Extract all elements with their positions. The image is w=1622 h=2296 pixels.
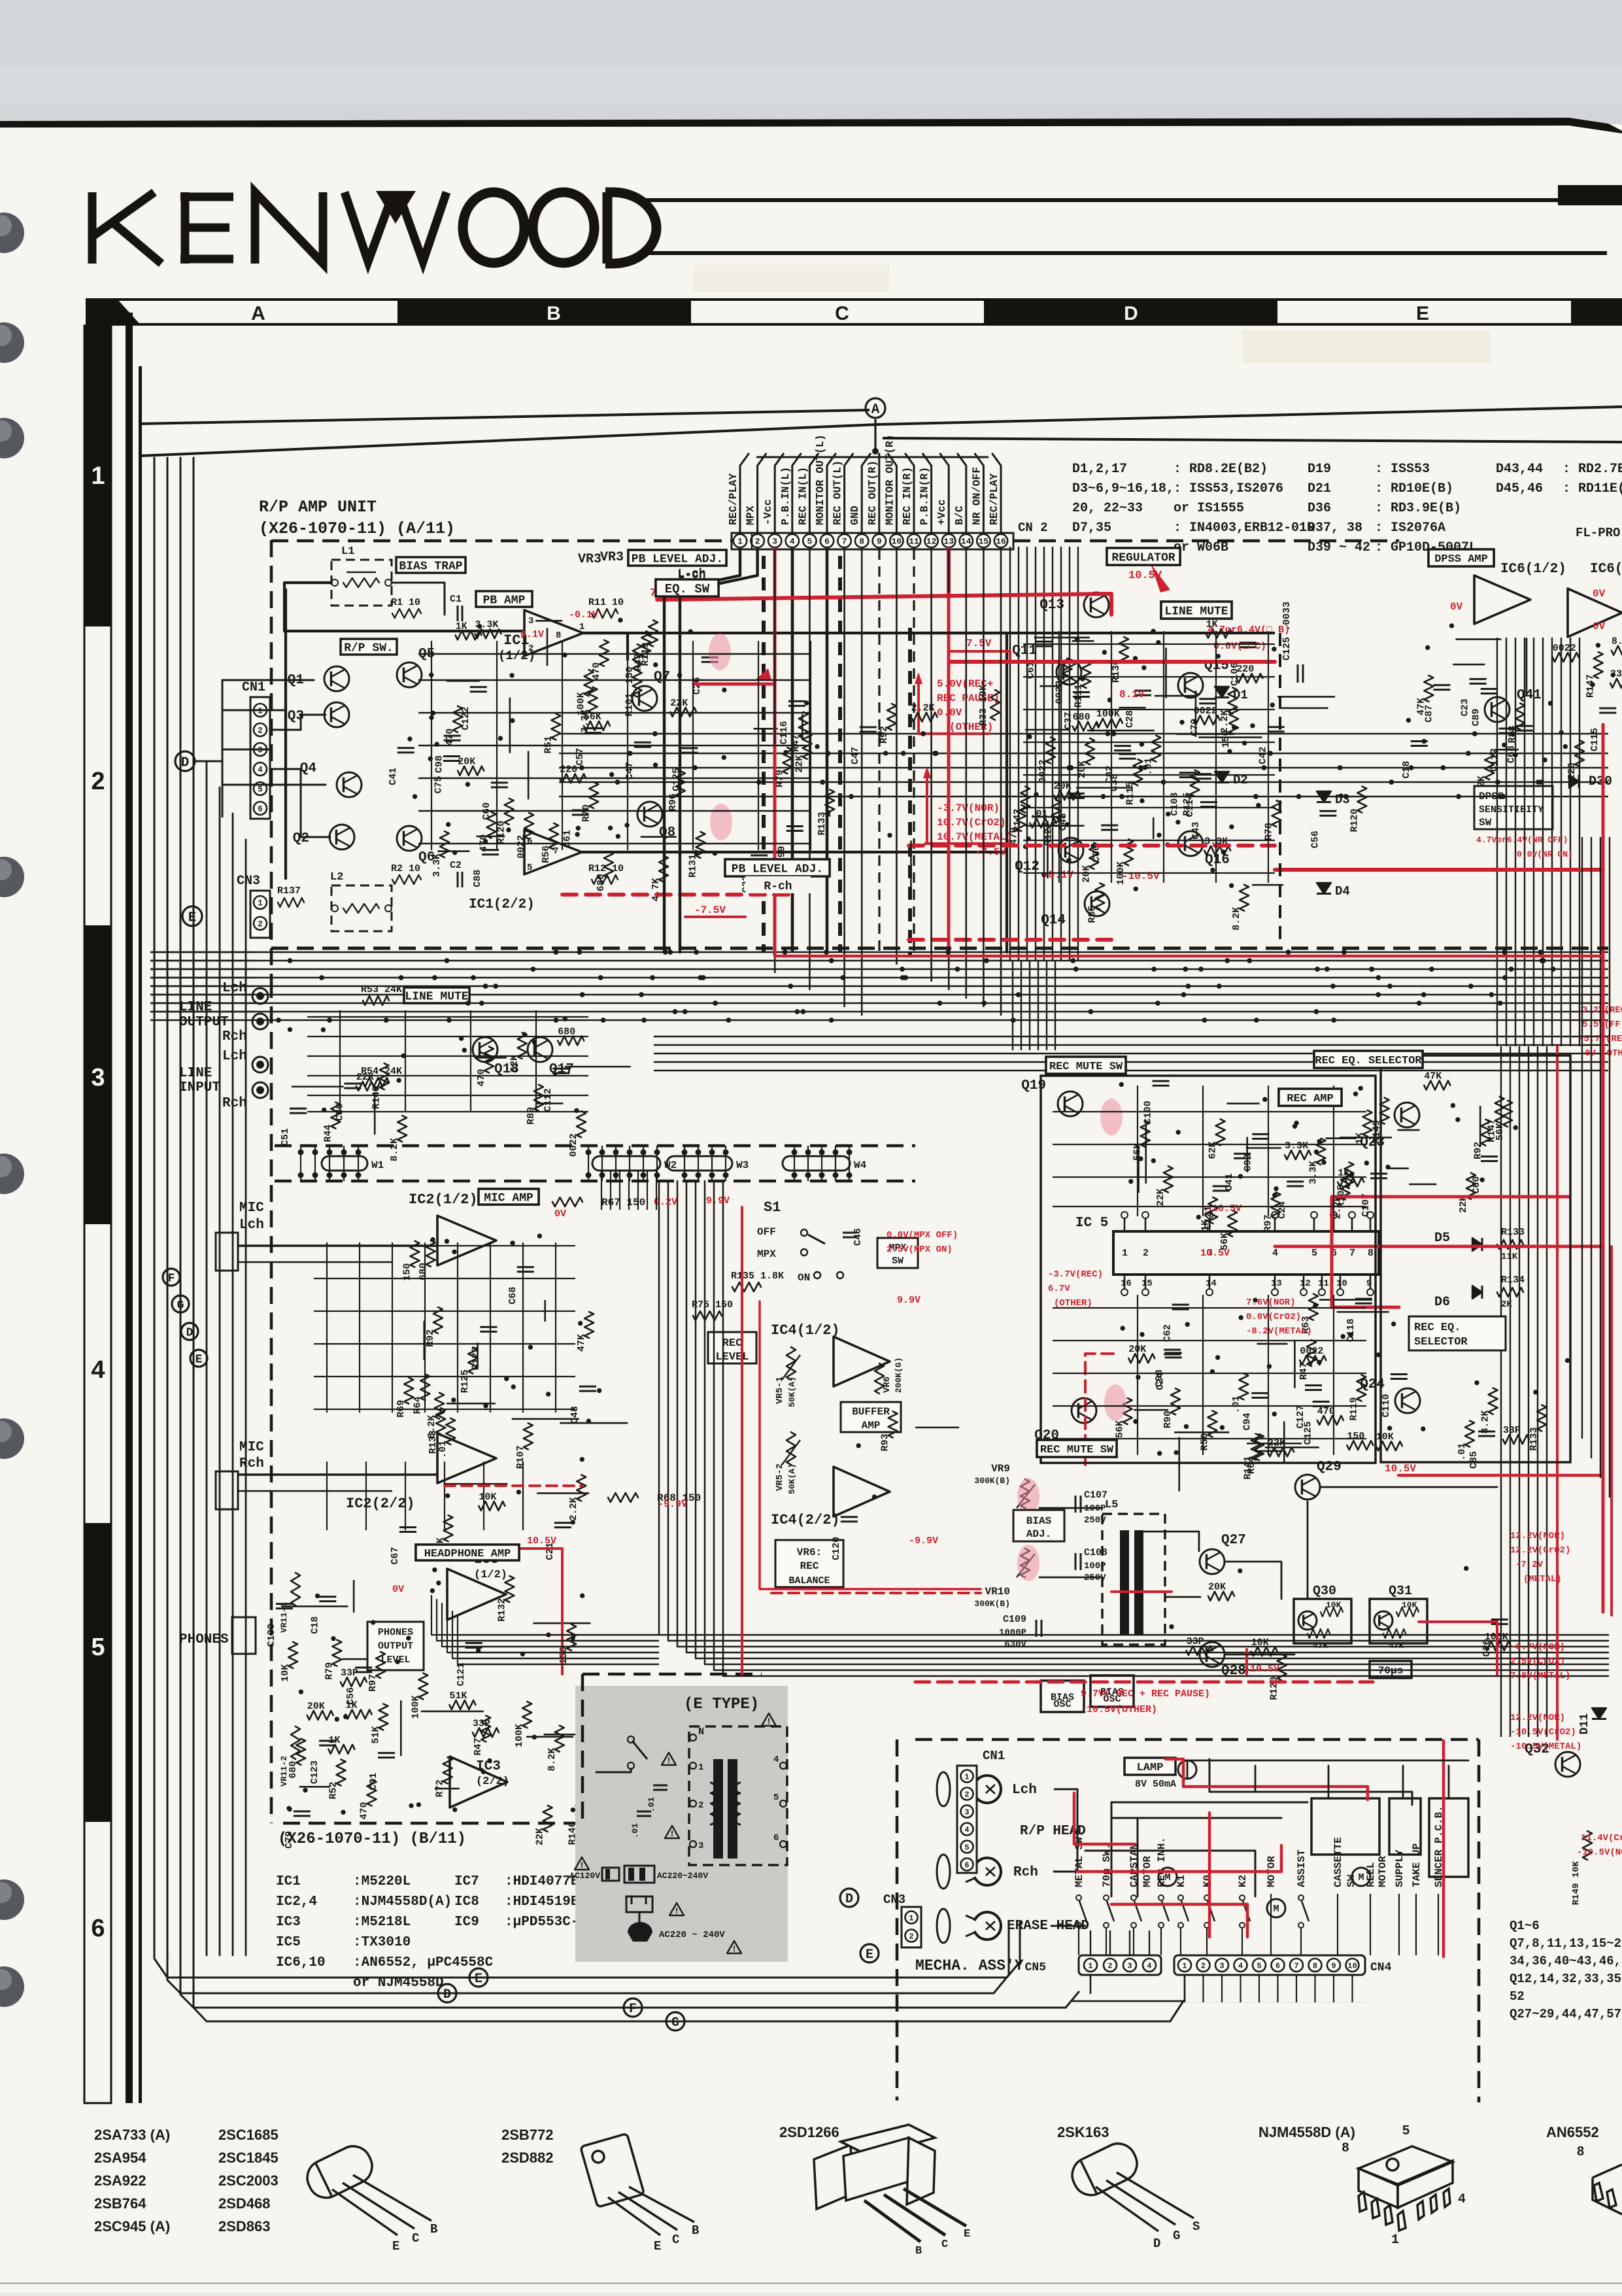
IC5 pin 15	[1145, 1275, 1147, 1290]
svg-text:220: 220	[1236, 664, 1254, 675]
bias cluster	[1251, 1647, 1277, 1656]
diode D4	[1317, 883, 1331, 894]
line jack 1	[252, 988, 268, 1004]
CN1b pin 4	[961, 1823, 973, 1836]
svg-text:R75 150: R75 150	[692, 1299, 733, 1311]
svg-text:AC120V: AC120V	[569, 1871, 600, 1881]
svg-text:E: E	[475, 1972, 482, 1987]
CN2 wire pin 13 +Vcc	[940, 454, 949, 533]
svg-text:REC/PLAY: REC/PLAY	[727, 473, 739, 525]
svg-text:R137: R137	[277, 885, 301, 897]
svg-text:7.8V(METAL): 7.8V(METAL)	[1510, 1671, 1570, 1681]
IC5 pin 6	[1333, 1218, 1335, 1231]
svg-text:4: 4	[773, 1755, 779, 1765]
svg-text:AC220 ~ 240V: AC220 ~ 240V	[659, 1930, 725, 1940]
svg-text:20, 22~33: 20, 22~33	[1072, 501, 1143, 516]
diode D6	[1472, 1286, 1482, 1299]
svg-text:IC8: IC8	[454, 1894, 479, 1910]
CN2 comb node	[873, 449, 879, 454]
regulator dashed right border	[1279, 633, 1281, 945]
svg-text:(X26-1070-11) (B/11): (X26-1070-11) (B/11)	[278, 1830, 466, 1848]
svg-text:C109: C109	[1003, 1614, 1026, 1625]
resistor R134	[1497, 1288, 1523, 1297]
svg-text:10: 10	[1347, 1961, 1357, 1970]
CN4 pin 10	[1346, 1959, 1359, 1972]
node E circle	[182, 906, 202, 926]
L5 core bars	[1120, 1530, 1129, 1635]
svg-text:R90: R90	[1162, 1411, 1174, 1428]
diode D1	[1215, 687, 1229, 698]
transistor Q11	[1056, 660, 1081, 685]
CN2 pin 16	[994, 534, 1007, 547]
svg-text:R12 10: R12 10	[588, 863, 624, 874]
red trace CN2 pin13 drop	[947, 549, 951, 595]
svg-text:16: 16	[1121, 1278, 1132, 1289]
CN4 pin 2	[1197, 1959, 1210, 1972]
op-amp IC2 1/2	[437, 1216, 496, 1265]
transistor Q5	[397, 662, 422, 687]
svg-text:Q16: Q16	[1205, 853, 1230, 868]
thick signal path upper	[583, 632, 1007, 634]
red drop pin4 extend	[773, 745, 777, 955]
svg-text:B/C: B/C	[953, 505, 966, 525]
svg-text:B: B	[430, 2222, 437, 2236]
svg-text:47K: 47K	[1313, 1641, 1328, 1651]
svg-text:: RD11E(B3): : RD11E(B3)	[1563, 481, 1622, 496]
svg-text:22K: 22K	[794, 755, 805, 773]
bundle left extensions	[458, 1634, 659, 1636]
svg-text:IC1: IC1	[276, 1874, 301, 1889]
op-amp IC1 2/2	[524, 830, 582, 874]
transistor Q2	[329, 825, 354, 849]
mic column wires 2	[326, 1462, 328, 1530]
VR9 bias adj	[1021, 1479, 1030, 1508]
svg-text:C120: C120	[831, 1537, 842, 1560]
svg-text:3.3K: 3.3K	[1285, 1140, 1308, 1152]
svg-text:33P: 33P	[1187, 1636, 1204, 1647]
CN2 wire pin 14 B/C	[958, 454, 966, 533]
svg-text:MIC: MIC	[239, 1440, 264, 1455]
transistor Q27	[1200, 1549, 1225, 1574]
PB amp label	[476, 591, 532, 607]
svg-text:2SC945 (A): 2SC945 (A)	[94, 2218, 170, 2235]
svg-text:0.0V(MPX OFF): 0.0V(MPX OFF)	[887, 1230, 958, 1241]
svg-text:12.2V(NOR): 12.2V(NOR)	[1510, 1713, 1565, 1723]
safety caps	[653, 1785, 667, 1787]
CN4 pin 4	[1234, 1959, 1247, 1972]
svg-text:PB LEVEL ADJ.: PB LEVEL ADJ.	[632, 553, 723, 566]
CN1b pin 3	[961, 1806, 973, 1818]
svg-text:D1,2,17: D1,2,17	[1072, 462, 1127, 477]
svg-text:C98: C98	[434, 755, 445, 773]
red trace bias osc	[1111, 1590, 1172, 1593]
R53 R54	[363, 996, 389, 1005]
svg-text:20K: 20K	[1208, 1582, 1226, 1593]
wire bundle W2	[592, 1156, 660, 1171]
svg-text:0022: 0022	[1194, 706, 1217, 717]
REC block solid border	[1041, 1076, 1376, 1463]
svg-text:-10.5V(OTHER): -10.5V(OTHER)	[1081, 1704, 1157, 1715]
svg-text:OSC: OSC	[1053, 1699, 1071, 1710]
CN3 pin 1	[254, 896, 267, 909]
VR9 highlight	[1017, 1478, 1039, 1515]
svg-text:C88: C88	[472, 870, 483, 887]
svg-text:1: 1	[579, 622, 584, 632]
svg-text:D: D	[845, 1892, 853, 1907]
svg-text:ON: ON	[798, 1272, 810, 1284]
svg-text:-9.9V: -9.9V	[909, 1535, 938, 1547]
svg-text:R132: R132	[496, 1598, 507, 1622]
svg-text:LINE MUTE: LINE MUTE	[405, 990, 468, 1003]
red dashed minus supply B	[909, 844, 1275, 848]
CN5 pin 1	[1084, 1959, 1097, 1972]
svg-text:EQ. SW: EQ. SW	[665, 582, 710, 596]
red dashed minus supply C	[909, 938, 1115, 942]
TO-220 package drawing	[814, 2125, 966, 2242]
svg-text:2SD882: 2SD882	[501, 2150, 554, 2166]
CN1 pin 3	[254, 743, 267, 756]
REC block grid wires	[1053, 1111, 1366, 1112]
IC5 box	[1113, 1231, 1379, 1275]
op-amp IC6 1/2	[1474, 575, 1530, 624]
line mute cluster extra	[558, 1036, 584, 1045]
svg-text:D: D	[1124, 303, 1138, 324]
wire ic1 out row	[582, 851, 719, 853]
svg-text:IC 5: IC 5	[1075, 1216, 1108, 1231]
svg-text:16: 16	[996, 537, 1006, 547]
svg-text:MECHA. ASS'Y: MECHA. ASS'Y	[915, 1957, 1024, 1974]
wire pb amp row	[418, 630, 524, 632]
rec right lower cluster	[1503, 1435, 1529, 1444]
svg-text:REGULATOR: REGULATOR	[1111, 551, 1175, 564]
svg-text:R/P AMP UNIT: R/P AMP UNIT	[259, 498, 377, 517]
svg-text:9: 9	[1331, 1961, 1336, 1970]
vertical wire bundle center	[1009, 547, 1011, 961]
svg-text:100K: 100K	[514, 1724, 525, 1747]
wire bundle W1	[322, 1156, 367, 1171]
VR6 REC BALANCE label	[775, 1540, 843, 1587]
svg-text:Q31: Q31	[1389, 1584, 1412, 1599]
CN2 to REC bundle extension	[1012, 961, 1013, 1050]
DPSS SENSITIBITY SW box	[1474, 786, 1553, 829]
svg-text:Q41: Q41	[1517, 688, 1542, 703]
svg-text:680: 680	[1073, 712, 1090, 723]
label overlay HEADPHONE AMP	[416, 1545, 519, 1560]
transistor Q20	[1072, 1398, 1096, 1423]
mecha dashed border top	[915, 1738, 1479, 1741]
CN2 pin 8	[855, 534, 868, 547]
svg-text:D6: D6	[1434, 1295, 1450, 1310]
CN2 pin 5	[803, 534, 816, 547]
svg-text:6: 6	[258, 805, 263, 814]
binder hole 4	[0, 857, 24, 897]
svg-text:AC220~240V: AC220~240V	[657, 1871, 708, 1881]
red trace right supply	[1275, 868, 1603, 872]
CN1b pin 5	[961, 1841, 973, 1853]
svg-text:PB LEVEL ADJ.: PB LEVEL ADJ.	[732, 863, 823, 876]
svg-text:-8.1V: -8.1V	[1042, 869, 1073, 881]
rec level cluster	[841, 1516, 858, 1518]
svg-text:12.2V(NOR): 12.2V(NOR)	[1510, 1531, 1565, 1541]
svg-text:C41: C41	[388, 768, 399, 785]
svg-text:Q19: Q19	[1021, 1078, 1046, 1093]
svg-text:R69: R69	[396, 1400, 407, 1418]
CN2 pin drops special	[791, 549, 794, 952]
CN2 pin 6	[820, 534, 834, 547]
svg-text:VR3: VR3	[600, 550, 624, 565]
red trace head feed	[1074, 1793, 1135, 1844]
op-amp IC3 1/2	[447, 1569, 506, 1620]
diode D2	[1215, 772, 1229, 783]
bundle dashed rail upper	[275, 1144, 915, 1148]
svg-text:20K: 20K	[458, 757, 475, 768]
svg-text:4.7K: 4.7K	[650, 878, 662, 901]
op-amp IC1 1/2	[524, 610, 583, 656]
svg-text:R1 10: R1 10	[391, 597, 420, 608]
connector CN5	[1079, 1955, 1161, 1975]
svg-text:REC: REC	[722, 1337, 743, 1350]
svg-text:C2: C2	[450, 860, 462, 871]
svg-text:5: 5	[964, 1843, 969, 1852]
svg-text:C62: C62	[1162, 1324, 1174, 1342]
red arrow regulator	[1151, 564, 1170, 592]
svg-text:-0.1V: -0.1V	[569, 609, 598, 621]
bundle dashed rail lower	[275, 1180, 915, 1183]
svg-text:G: G	[671, 2015, 679, 2030]
svg-text:10K: 10K	[280, 1664, 291, 1682]
svg-text:R43: R43	[633, 653, 644, 671]
svg-text:VR11-1: VR11-1	[279, 1602, 289, 1633]
red trace mecha 4	[1208, 1813, 1211, 1937]
REC MUTE SW label bottom	[1037, 1440, 1117, 1457]
svg-text:R44: R44	[322, 1125, 333, 1142]
svg-text:150: 150	[558, 1647, 569, 1664]
svg-text:D3~6,9~16,18,: D3~6,9~16,18,	[1072, 481, 1174, 496]
svg-text:D11: D11	[1578, 1713, 1591, 1735]
svg-text::M5220L: :M5220L	[353, 1874, 411, 1889]
svg-text:-10.5V(METAL): -10.5V(METAL)	[1510, 1741, 1581, 1752]
regulator top thick wire	[910, 632, 1275, 634]
svg-text:.01: .01	[630, 1823, 640, 1839]
label overlay LINE MUTE right	[1161, 602, 1232, 619]
op-amp IC2 2/2	[437, 1433, 496, 1483]
70us label	[1370, 1661, 1411, 1678]
left vertical bus wires	[206, 761, 208, 1955]
inductor L1 dashed box	[331, 560, 392, 606]
svg-text:10.5V: 10.5V	[1385, 1463, 1416, 1475]
CN1b pin 2	[961, 1788, 973, 1800]
svg-text:9.7V( REC + REC PAUSE): 9.7V( REC + REC PAUSE)	[1081, 1688, 1210, 1700]
head coil ellipses	[937, 1772, 950, 1806]
upper-left passive cluster A	[588, 687, 598, 713]
svg-text:3.3K: 3.3K	[1308, 1161, 1319, 1184]
svg-text:REC IN(R): REC IN(R)	[901, 467, 913, 525]
svg-text:BALANCE: BALANCE	[788, 1575, 830, 1586]
svg-text:9.9V: 9.9V	[897, 1295, 921, 1306]
svg-text:!: !	[579, 1860, 584, 1870]
B11 dashed right border	[581, 1674, 584, 1823]
CN1b pin 1	[961, 1770, 973, 1783]
svg-text:1: 1	[909, 1913, 913, 1923]
svg-text:(1/2): (1/2)	[474, 1569, 507, 1581]
svg-text::NJM4558D(A): :NJM4558D(A)	[353, 1894, 452, 1910]
transistor Q28	[1200, 1642, 1225, 1667]
svg-text:3: 3	[1127, 1961, 1132, 1970]
red trace ic4 supply2	[760, 1301, 981, 1589]
svg-text:D: D	[181, 755, 190, 770]
svg-text:C68: C68	[507, 1287, 518, 1305]
svg-text:Q30: Q30	[1313, 1584, 1336, 1599]
CN5 pin 4	[1143, 1959, 1156, 1972]
label overlay DPSS AMP	[1428, 549, 1494, 566]
svg-text:or W06B: or W06B	[1174, 540, 1228, 555]
svg-text:1: 1	[1391, 2233, 1399, 2248]
label overlay PB LEVEL ADJ L	[628, 550, 726, 566]
regulator grid wires	[1023, 643, 1275, 645]
binder hole 1	[0, 213, 24, 253]
svg-text:REC MUTE SW: REC MUTE SW	[1049, 1061, 1123, 1073]
svg-text:C98: C98	[1154, 1369, 1165, 1387]
svg-text:REC: REC	[800, 1560, 819, 1572]
svg-text:51K: 51K	[449, 1690, 467, 1702]
svg-text:8: 8	[1577, 2144, 1584, 2159]
svg-text:Rch: Rch	[222, 1029, 247, 1044]
svg-text:8.2K: 8.2K	[547, 1748, 558, 1772]
svg-text:C1: C1	[450, 594, 462, 605]
right bundle extension	[1500, 1046, 1502, 1737]
red rail 7.5V reg	[949, 660, 1275, 664]
svg-text:F: F	[168, 1272, 175, 1285]
svg-text:-10.5V(CrO2): -10.5V(CrO2)	[1510, 1727, 1576, 1738]
svg-text:1000P: 1000P	[999, 1628, 1026, 1638]
center vertical bundle	[659, 1181, 1608, 1635]
svg-text:R131: R131	[688, 854, 699, 878]
line bus left entry	[150, 951, 255, 953]
transistor Q7	[632, 686, 657, 711]
transistor Q18	[473, 1037, 498, 1062]
svg-text:1: 1	[1088, 1961, 1092, 1970]
svg-text:15: 15	[979, 537, 989, 547]
svg-text:REC OUT(R): REC OUT(R)	[866, 460, 879, 525]
svg-text:3: 3	[698, 1841, 703, 1851]
label overlay REC AMP	[1279, 1089, 1342, 1106]
svg-text:C18: C18	[309, 1617, 320, 1634]
svg-text:C48: C48	[569, 1406, 581, 1424]
svg-text:REC EQ.: REC EQ.	[1414, 1322, 1461, 1334]
transistor Q1	[324, 666, 349, 691]
svg-text:S: S	[1192, 2219, 1200, 2234]
svg-text:R125: R125	[460, 1369, 471, 1393]
svg-text:Lch: Lch	[239, 1218, 264, 1233]
svg-text:Q7: Q7	[654, 670, 670, 685]
sencer box	[1429, 1798, 1468, 1877]
svg-text:D: D	[443, 1987, 451, 2002]
svg-text:200K(G): 200K(G)	[894, 1357, 904, 1393]
svg-text:C67: C67	[390, 1547, 401, 1564]
mic feedback resistors	[552, 1197, 583, 1207]
svg-text:C108: C108	[1084, 1547, 1107, 1558]
svg-text:2: 2	[528, 643, 533, 654]
schematic top frame lines	[141, 410, 870, 424]
svg-text:5: 5	[91, 1634, 105, 1661]
CN1 pin 6	[254, 802, 267, 815]
svg-text:P.B.IN(R): P.B.IN(R)	[919, 467, 931, 525]
reel motor box	[1389, 1798, 1421, 1855]
svg-text:-7.2V: -7.2V	[1515, 1560, 1544, 1570]
svg-text:R85: R85	[1087, 906, 1098, 923]
REC MUTE SW label	[1046, 1057, 1126, 1074]
svg-text:3: 3	[1219, 1961, 1224, 1970]
svg-text:-0.7V(NOR): -0.7V(NOR)	[1510, 1642, 1565, 1653]
REC EQ SELECTOR label 2	[1409, 1316, 1506, 1350]
svg-text:REC EQ. SELECTOR: REC EQ. SELECTOR	[1315, 1055, 1422, 1067]
svg-text:E: E	[392, 2239, 399, 2253]
CN2 pin 13	[942, 534, 955, 547]
svg-text:C42: C42	[1258, 747, 1269, 764]
C108 cap	[1075, 1553, 1077, 1570]
page bottom faint edge	[0, 2282, 1622, 2284]
svg-text:SW: SW	[892, 1256, 904, 1267]
CN4 pin 8	[1309, 1959, 1322, 1972]
svg-text:100K: 100K	[1096, 709, 1120, 720]
resistor R133	[1497, 1240, 1523, 1249]
thin frame vertical line	[139, 366, 142, 2103]
svg-text:11.4V(Cr: 11.4V(Cr	[1581, 1833, 1622, 1843]
svg-text:22K: 22K	[1155, 1188, 1166, 1206]
svg-text:K2: K2	[1237, 1875, 1249, 1887]
svg-text:R97: R97	[1263, 1214, 1274, 1232]
svg-text:C23: C23	[1460, 698, 1471, 716]
svg-text:2: 2	[964, 1790, 969, 1799]
svg-text:7: 7	[842, 537, 847, 547]
svg-text:2SB772: 2SB772	[501, 2127, 554, 2143]
svg-text:VR10: VR10	[985, 1586, 1010, 1598]
dpss cluster	[1470, 678, 1487, 680]
red dashed mecha top	[915, 1681, 1373, 1684]
transformer windings	[710, 1814, 715, 1825]
svg-text:OFF: OFF	[757, 1226, 776, 1238]
CN2 wire pin 11 REC IN(R)	[905, 454, 914, 533]
mic amp label	[479, 1189, 539, 1205]
svg-text:C87: C87	[1423, 705, 1434, 723]
svg-text:R52: R52	[328, 1782, 339, 1800]
svg-text:4: 4	[258, 766, 263, 775]
svg-text:2SA954: 2SA954	[94, 2150, 146, 2166]
label overlay REC EQ SELECTOR top	[1314, 1051, 1423, 1068]
svg-text:Q4: Q4	[300, 761, 316, 776]
svg-text:C: C	[941, 2238, 948, 2251]
svg-text:2.2K: 2.2K	[1219, 710, 1230, 733]
svg-text:10.5V: 10.5V	[1128, 570, 1162, 582]
svg-text:C56: C56	[1309, 831, 1321, 848]
CN2 pin drop wires	[664, 549, 740, 952]
svg-text:R120: R120	[496, 821, 507, 844]
transistor Q29	[1295, 1475, 1320, 1499]
IC5 pin 9	[1370, 1275, 1372, 1290]
red trace EQ SW feed	[694, 683, 775, 686]
svg-text:R64: R64	[1246, 1456, 1257, 1474]
svg-text:Q27: Q27	[1221, 1533, 1246, 1548]
svg-text::HDI4519BP: :HDI4519BP	[505, 1894, 587, 1910]
svg-text:C123: C123	[309, 1760, 320, 1784]
svg-text:1: 1	[1122, 1248, 1128, 1259]
svg-text:: RD8.2E(B2): : RD8.2E(B2)	[1174, 462, 1268, 477]
svg-text:IC6,10: IC6,10	[276, 1955, 326, 1970]
svg-text:.01: .01	[647, 1797, 656, 1813]
svg-text:BIAS: BIAS	[1026, 1515, 1052, 1527]
svg-text:0022: 0022	[568, 1133, 579, 1157]
svg-text:AMP: AMP	[862, 1420, 881, 1431]
